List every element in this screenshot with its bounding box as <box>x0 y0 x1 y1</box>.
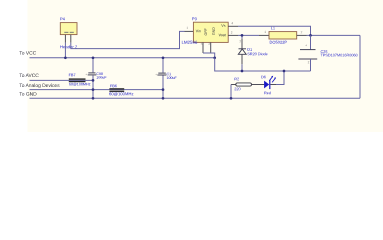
junction R2 / GND rail <box>230 97 233 100</box>
ferrite bead FB6 <box>109 85 133 96</box>
junction D1 / switch node <box>241 34 244 37</box>
junction feedback / output node <box>309 34 312 37</box>
diode D1 SR20 <box>238 35 267 71</box>
net label To Analog Devices <box>19 83 59 88</box>
junction C1 / GND rail <box>162 97 165 100</box>
net label To AVCC <box>19 74 38 77</box>
wire GND rail <box>30 97 361 99</box>
junction C90 / VCC rail <box>92 56 95 59</box>
wire LED cathode up to return line <box>270 71 284 85</box>
wire output down to bottom rail <box>359 35 361 98</box>
resistor R2 220 <box>231 78 264 91</box>
capacitor C25 TPSD107M016R0060 <box>298 35 357 71</box>
wire R2 to GND rail <box>230 85 232 99</box>
wire VCC rail corner down to return line <box>215 58 311 71</box>
ferrite bead FB7 <box>69 74 91 86</box>
inductor L1 DO5022P <box>265 27 303 44</box>
wire regulator Vout to inductor <box>228 34 269 36</box>
junction C1 / VCC rail <box>162 56 165 59</box>
junction LED branch / return line <box>283 70 286 73</box>
wire Analog Devices rail <box>30 89 164 91</box>
junction C90 / AVCC rail <box>92 79 95 82</box>
junction D1 / return line <box>241 70 244 73</box>
net label To VCC <box>19 51 36 54</box>
junction C90 / GND rail <box>92 97 95 100</box>
capacitor C90 100uF <box>86 58 107 99</box>
wire VCC rail <box>30 57 215 59</box>
junction P4 pin1 / VCC rail <box>64 56 67 59</box>
wire P4 pin2 to regulator Vin <box>71 31 194 48</box>
wire regulator GND and OFF pins to rail <box>203 42 215 57</box>
wire regulator feedback pin 4 <box>228 26 310 35</box>
connector P4 Header 2 <box>60 18 77 49</box>
LED D6 Red <box>261 76 276 95</box>
wire P4 pin1 to VCC rail <box>64 43 66 58</box>
net label To GND <box>19 92 36 95</box>
junction C1 / Analog rail <box>162 88 165 91</box>
wire inductor to output <box>297 34 360 36</box>
wire AVCC rail <box>30 79 94 81</box>
junction regulator pins / VCC rail end <box>213 56 216 59</box>
junction C90 / Analog rail <box>92 88 95 91</box>
capacitor C1 100uF <box>155 58 176 99</box>
voltage regulator P3 LM2596 <box>182 17 233 45</box>
